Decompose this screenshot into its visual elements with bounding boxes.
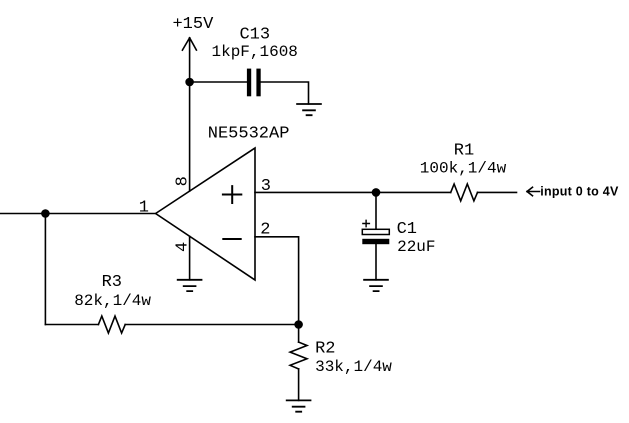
- wire pin 3 to node C: [255, 191, 376, 193]
- wire output pin 1: [0, 213, 156, 215]
- resistor R3: [98, 316, 125, 333]
- wire node D to R2: [298, 325, 300, 343]
- svg-text:1: 1: [139, 198, 149, 217]
- wire C13 to ground: [261, 82, 309, 104]
- op-amp - input symbol: [223, 238, 240, 240]
- svg-text:R3: R3: [102, 273, 122, 292]
- ground (C1): [364, 280, 388, 291]
- capacitor C1 (electrolytic): [362, 220, 389, 244]
- svg-text:100k,1/4w: 100k,1/4w: [420, 160, 507, 178]
- power arrow symbol: [182, 38, 196, 82]
- op-amp + input symbol: [223, 186, 241, 203]
- wire to R3: [45, 324, 98, 326]
- junction dot C (input node): [372, 188, 381, 197]
- ground (pin 4): [178, 280, 202, 291]
- wire node C to R1: [376, 191, 451, 193]
- wire junction A to C13: [190, 81, 247, 83]
- ground (R2): [287, 400, 311, 411]
- svg-text:C13: C13: [239, 26, 270, 45]
- wire R1 to input terminal: [478, 191, 517, 193]
- label input 0 to 4V: [527, 187, 540, 196]
- wire C1 to ground: [375, 244, 377, 280]
- junction dot D (feedback node): [294, 320, 303, 329]
- capacitor C13: [247, 69, 261, 97]
- svg-text:33k,1/4w: 33k,1/4w: [315, 358, 392, 376]
- svg-text:1kpF,1608: 1kpF,1608: [211, 43, 297, 61]
- svg-text:+15V: +15V: [172, 15, 214, 34]
- resistor R2: [290, 342, 307, 369]
- svg-text:8: 8: [174, 176, 193, 186]
- svg-text:3: 3: [261, 177, 271, 196]
- svg-text:R1: R1: [454, 141, 474, 160]
- svg-text:NE5532AP: NE5532AP: [208, 125, 290, 144]
- wire node D to pin 2: [255, 237, 299, 325]
- wire R3 to node D: [125, 324, 298, 326]
- wire node C to C1: [375, 192, 377, 229]
- svg-text:R2: R2: [315, 339, 335, 358]
- wire pin 4 to ground: [189, 237, 191, 280]
- svg-text:C1: C1: [397, 220, 417, 239]
- wire output node down: [44, 214, 46, 325]
- op-amp U1 NE5532AP: [156, 148, 255, 280]
- junction dot A (V+ node): [185, 78, 194, 87]
- wire V+ to pin 8: [189, 82, 191, 191]
- ground (C13): [297, 104, 321, 115]
- svg-text:input 0 to 4V: input 0 to 4V: [540, 185, 619, 199]
- svg-text:82k,1/4w: 82k,1/4w: [74, 292, 151, 310]
- resistor R1: [451, 184, 478, 201]
- junction dot B (output node): [41, 209, 50, 218]
- wire R2 to ground: [298, 369, 300, 401]
- svg-text:22uF: 22uF: [397, 238, 435, 256]
